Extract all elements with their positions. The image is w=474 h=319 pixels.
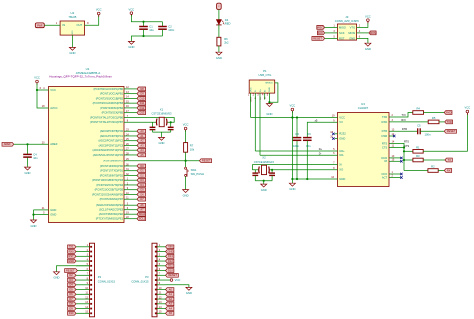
global label D12 bbox=[166, 259, 174, 263]
svg-text:(PCINT14/RESET)PC6: (PCINT14/RESET)PC6 bbox=[103, 161, 123, 163]
capacitor C4 10n bbox=[27, 144, 29, 154]
global label MISO bbox=[317, 26, 325, 30]
junction bbox=[271, 169, 273, 171]
capacitor X2 left bbox=[254, 170, 256, 173]
wire bbox=[185, 176, 187, 189]
svg-text:D4: D4 bbox=[140, 183, 144, 187]
P3 pin 8 bbox=[155, 279, 157, 281]
svg-text:GND: GND bbox=[269, 87, 271, 92]
connector P2 CONN_01X15 bbox=[90, 243, 95, 317]
global label A3 bbox=[166, 302, 174, 306]
junction bbox=[296, 116, 298, 118]
svg-text:A0: A0 bbox=[169, 287, 173, 291]
svg-text:DSR: DSR bbox=[382, 134, 388, 138]
svg-text:SHIELD: SHIELD bbox=[265, 82, 273, 84]
svg-text:A6: A6 bbox=[140, 203, 144, 207]
junction bbox=[26, 143, 28, 145]
svg-text:RTS: RTS bbox=[404, 141, 409, 144]
svg-text:VCC: VCC bbox=[50, 88, 56, 92]
svg-text:100n: 100n bbox=[293, 144, 299, 148]
svg-text:(ADC4/SDA/PCINT12)PC4: (ADC4/SDA/PCINT12)PC4 bbox=[93, 148, 124, 152]
svg-text:(ADC2/PCINT10)PC2: (ADC2/PCINT10)PC2 bbox=[98, 139, 123, 143]
svg-text:(PTCXY/T5/MISO1)PE1: (PTCXY/T5/MISO1)PE1 bbox=[96, 217, 124, 221]
svg-text:RXI: RXI bbox=[401, 119, 405, 122]
global label RESET bbox=[65, 269, 78, 273]
ground bbox=[25, 167, 31, 170]
svg-text:P1: P1 bbox=[263, 69, 267, 73]
svg-text:D4: D4 bbox=[225, 18, 229, 22]
svg-text:D6: D6 bbox=[69, 292, 73, 296]
wire XTAL2 bbox=[124, 121, 157, 123]
svg-text:D12: D12 bbox=[168, 259, 173, 263]
P3 pin 2 bbox=[155, 251, 157, 253]
svg-text:D9: D9 bbox=[69, 306, 73, 310]
svg-text:D3: D3 bbox=[69, 278, 73, 282]
wire VCC rail bbox=[291, 111, 293, 117]
P2 pin 1 bbox=[90, 246, 92, 248]
wire bbox=[255, 180, 272, 182]
wire RESET net bbox=[124, 160, 199, 162]
global label SCK bbox=[317, 31, 324, 35]
power input pad J2 bbox=[35, 23, 44, 28]
P2 pin 4 bbox=[90, 260, 92, 262]
pin 18 R232 stub bbox=[335, 133, 338, 135]
USB pin stubs bbox=[250, 93, 252, 96]
svg-text:10n: 10n bbox=[306, 144, 311, 148]
wire bbox=[185, 152, 187, 161]
P3 pin 13 bbox=[155, 303, 157, 305]
wire bbox=[166, 285, 189, 287]
svg-text:RESET: RESET bbox=[447, 129, 456, 133]
wire bbox=[185, 161, 187, 167]
svg-text:GND: GND bbox=[159, 141, 165, 145]
svg-text:D10: D10 bbox=[168, 268, 173, 272]
svg-text:USB_OTG: USB_OTG bbox=[258, 73, 271, 77]
junction bbox=[296, 178, 298, 180]
junction bbox=[170, 121, 172, 123]
resistor R7 10k bbox=[184, 143, 188, 153]
svg-text:10k: 10k bbox=[190, 147, 195, 151]
global label RXD bbox=[444, 111, 452, 115]
resistor R6 2k2 bbox=[217, 37, 221, 46]
ground bbox=[183, 190, 189, 193]
connector J3 CONN_AVR_ICSP6 bbox=[337, 24, 356, 40]
svg-text:D7: D7 bbox=[140, 197, 144, 201]
wire to VCC bbox=[423, 113, 467, 151]
wire bbox=[357, 38, 368, 43]
svg-text:R5: R5 bbox=[432, 116, 436, 120]
svg-text:XO: XO bbox=[339, 168, 343, 172]
svg-text:GND: GND bbox=[339, 177, 345, 181]
junction bbox=[185, 160, 187, 162]
USB UART U3 CH340T bbox=[338, 113, 390, 187]
svg-text:VCC: VCC bbox=[250, 87, 252, 92]
resistor R3 bbox=[404, 159, 413, 161]
svg-text:(PCINT6/XTAL1/TOSC1)PB6: (PCINT6/XTAL1/TOSC1)PB6 bbox=[90, 115, 124, 119]
global label A0 bbox=[166, 288, 174, 292]
pin 1 CKO stub bbox=[389, 173, 401, 175]
svg-text:DTR: DTR bbox=[382, 129, 388, 133]
junction bbox=[268, 101, 270, 103]
svg-text:GND: GND bbox=[261, 188, 267, 192]
svg-text:(PCINT17/TXD)PD1: (PCINT17/TXD)PD1 bbox=[100, 169, 124, 173]
svg-text:CSTCE16M0V53: CSTCE16M0V53 bbox=[152, 111, 172, 115]
svg-text:A1: A1 bbox=[140, 134, 144, 138]
USB connector P1 USB_OTG bbox=[249, 80, 275, 93]
wire bbox=[424, 112, 445, 114]
wire shield bbox=[269, 83, 278, 102]
svg-text:10n: 10n bbox=[33, 156, 38, 160]
svg-text:XI: XI bbox=[339, 162, 342, 166]
svg-text:D-: D- bbox=[255, 89, 257, 92]
ground bbox=[69, 47, 75, 50]
svg-text:(PCINT5/SCK)PB5: (PCINT5/SCK)PB5 bbox=[102, 111, 124, 115]
wire bbox=[166, 279, 171, 281]
P3 pin 6 bbox=[155, 270, 157, 272]
svg-text:RED: RED bbox=[225, 22, 231, 26]
global label RX1 bbox=[444, 169, 451, 173]
global label A4 bbox=[166, 307, 174, 311]
svg-text:D10: D10 bbox=[69, 311, 74, 315]
svg-text:A4: A4 bbox=[169, 306, 173, 310]
svg-text:PWR: PWR bbox=[37, 25, 43, 27]
P2 pin 5 bbox=[90, 265, 92, 267]
svg-text:CSTCE12M0G15: CSTCE12M0G15 bbox=[254, 160, 275, 164]
wire bbox=[218, 25, 220, 37]
pin 15 RI stub bbox=[389, 160, 401, 162]
P2 pin 9 bbox=[90, 284, 92, 286]
junction bbox=[306, 178, 308, 180]
svg-text:D11: D11 bbox=[140, 101, 145, 105]
wire XO bbox=[270, 169, 338, 171]
svg-text:100n: 100n bbox=[425, 133, 431, 137]
svg-text:GND: GND bbox=[266, 112, 272, 116]
svg-text:Housings_QFP-TQFP-32_7x7mm_Pit: Housings_QFP-TQFP-32_7x7mm_Pitch0.8mm bbox=[49, 74, 112, 78]
svg-text:(ADC1/PCINT9)PC1: (ADC1/PCINT9)PC1 bbox=[100, 134, 124, 138]
svg-text:D6: D6 bbox=[140, 192, 144, 196]
svg-text:(ACO/T3/MOSI1)PE0: (ACO/T3/MOSI1)PE0 bbox=[99, 212, 124, 216]
svg-text:D5: D5 bbox=[69, 287, 73, 291]
wire bbox=[71, 35, 73, 47]
svg-text:C2: C2 bbox=[168, 24, 172, 28]
svg-text:C3: C3 bbox=[295, 132, 299, 136]
P3 pin 15 bbox=[155, 312, 157, 314]
svg-text:RX0: RX0 bbox=[69, 249, 75, 253]
global label D10 bbox=[68, 311, 76, 315]
svg-text:C6: C6 bbox=[307, 132, 311, 136]
global label GND bbox=[68, 259, 76, 263]
svg-text:(PCINT22/OC0A/AIN0)PD6: (PCINT22/OC0A/AIN0)PD6 bbox=[92, 192, 124, 196]
P2 pin 6 bbox=[90, 270, 92, 272]
svg-text:GND: GND bbox=[68, 259, 74, 263]
global label D6 bbox=[68, 292, 76, 296]
svg-text:A2: A2 bbox=[140, 139, 144, 143]
P2 pin 14 bbox=[90, 308, 92, 310]
svg-text:(PCINT21/OC0B/T1)PD5: (PCINT21/OC0B/T1)PD5 bbox=[95, 188, 124, 192]
global label RESET bbox=[199, 159, 211, 163]
svg-text:AREF: AREF bbox=[4, 142, 11, 146]
wire GND pins 21 5 bbox=[34, 209, 49, 211]
capacitor C3 100n bbox=[296, 118, 298, 138]
svg-text:UD-: UD- bbox=[339, 153, 344, 157]
capacitor X1 left bbox=[152, 122, 154, 127]
P3 pin 10 bbox=[155, 289, 157, 291]
svg-text:DCD: DCD bbox=[381, 156, 387, 160]
svg-text:C4: C4 bbox=[33, 152, 37, 156]
wire RXD bbox=[389, 121, 428, 123]
global label D4 bbox=[68, 283, 76, 287]
svg-text:(PCINT4/MISO)PB4: (PCINT4/MISO)PB4 bbox=[100, 106, 123, 110]
power VCC bbox=[184, 127, 187, 132]
svg-text:GND: GND bbox=[349, 36, 355, 40]
wire XI bbox=[253, 165, 338, 170]
ground bbox=[159, 137, 165, 140]
svg-text:R7: R7 bbox=[190, 144, 194, 148]
svg-text:GND: GND bbox=[289, 187, 295, 191]
global label A2 bbox=[166, 297, 174, 301]
svg-text:D5: D5 bbox=[140, 188, 144, 192]
wire UD+ bbox=[255, 150, 337, 152]
svg-text:78L05: 78L05 bbox=[68, 15, 76, 19]
svg-text:X2: X2 bbox=[262, 155, 266, 159]
LED D4 RED bbox=[216, 20, 224, 25]
global label RX0 bbox=[68, 250, 76, 254]
global label D11 bbox=[166, 264, 174, 268]
svg-text:D2: D2 bbox=[140, 173, 144, 177]
svg-text:OUT: OUT bbox=[77, 23, 83, 27]
svg-text:VCC: VCC bbox=[175, 278, 181, 282]
wire GND rail bbox=[291, 118, 293, 184]
svg-text:RESET: RESET bbox=[66, 268, 75, 272]
ground bbox=[261, 184, 267, 187]
svg-text:R3: R3 bbox=[416, 154, 420, 158]
global label D8 bbox=[68, 302, 76, 306]
wire bbox=[420, 130, 444, 132]
svg-text:(PCINT20/XCK/T0)PD4: (PCINT20/XCK/T0)PD4 bbox=[96, 183, 123, 187]
svg-text:A3: A3 bbox=[140, 143, 144, 147]
global label RESET bbox=[166, 273, 179, 277]
svg-text:RXD: RXD bbox=[446, 110, 452, 114]
svg-text:(PCINT23/AIN1)PD7: (PCINT23/AIN1)PD7 bbox=[100, 197, 124, 201]
svg-text:VCC: VCC bbox=[465, 106, 471, 110]
svg-text:CONN_AVR_ICSP6: CONN_AVR_ICSP6 bbox=[335, 19, 360, 23]
svg-text:SW1: SW1 bbox=[191, 168, 197, 172]
capacitor C1 10u bbox=[143, 22, 145, 27]
global label D7 bbox=[68, 297, 76, 301]
svg-text:(PCINT19/OC2B/INT1)PD3: (PCINT19/OC2B/INT1)PD3 bbox=[92, 178, 124, 182]
P2 pin 7 bbox=[90, 274, 92, 276]
P2 pin 11 bbox=[90, 293, 92, 295]
power VCC bbox=[130, 12, 133, 16]
ground bbox=[186, 287, 192, 290]
svg-text:10u: 10u bbox=[149, 28, 154, 32]
wire XTAL1 bbox=[124, 118, 174, 123]
svg-text:P2: P2 bbox=[98, 275, 102, 279]
ground bbox=[266, 104, 272, 107]
wire bbox=[85, 15, 99, 25]
svg-text:D11: D11 bbox=[168, 264, 173, 268]
svg-text:VTG: VTG bbox=[350, 25, 356, 29]
svg-text:(ADC5/SCL/PCINT13)PC5: (ADC5/SCL/PCINT13)PC5 bbox=[93, 153, 124, 157]
svg-text:J3: J3 bbox=[345, 15, 348, 19]
resistor R1 bbox=[404, 150, 413, 152]
svg-text:D7: D7 bbox=[69, 297, 73, 301]
P2 pin 15 bbox=[90, 312, 92, 314]
svg-text:TXD: TXD bbox=[382, 115, 387, 119]
wire bbox=[153, 131, 171, 133]
wire bbox=[131, 36, 162, 41]
P3 pin 5 bbox=[155, 265, 157, 267]
wire bbox=[131, 15, 162, 22]
svg-text:(PCINT16/RXD)PD0: (PCINT16/RXD)PD0 bbox=[100, 164, 124, 168]
junction bbox=[142, 21, 144, 23]
ground bbox=[216, 52, 222, 55]
global label A1 bbox=[166, 292, 174, 296]
svg-text:MISO: MISO bbox=[339, 25, 346, 29]
svg-text:(PCINT2/SS/OC1B)PB2: (PCINT2/SS/OC1B)PB2 bbox=[96, 96, 124, 100]
svg-text:AVCC: AVCC bbox=[50, 106, 57, 110]
pin 10 DCD stub bbox=[389, 157, 401, 159]
wire VCC to pins 4 6 bbox=[37, 83, 49, 108]
ground bbox=[54, 272, 60, 275]
svg-text:P: P bbox=[218, 6, 219, 8]
svg-text:(SCL1/T4/ADC7)PE3: (SCL1/T4/ADC7)PE3 bbox=[99, 208, 124, 212]
svg-text:UD+: UD+ bbox=[339, 149, 345, 153]
svg-text:RESET: RESET bbox=[202, 159, 211, 163]
P2 pin 8 bbox=[90, 279, 92, 281]
capacitor C2 100n bbox=[162, 22, 164, 27]
svg-text:TX1: TX1 bbox=[69, 245, 74, 249]
svg-text:(PCINT0/CLKO/ICP1)PB0: (PCINT0/CLKO/ICP1)PB0 bbox=[94, 87, 124, 91]
svg-text:VCC: VCC bbox=[290, 104, 296, 108]
svg-text:DTR: DTR bbox=[402, 128, 407, 131]
svg-text:(PCINT3/OC2A/MOSI)PB3: (PCINT3/OC2A/MOSI)PB3 bbox=[93, 101, 124, 105]
P2 pin 3 bbox=[90, 255, 92, 257]
wire UD- bbox=[260, 154, 338, 156]
svg-text:CONN_01X15: CONN_01X15 bbox=[98, 280, 116, 284]
global label TX0 bbox=[445, 158, 452, 162]
global label A5 bbox=[166, 311, 174, 315]
wire CTS bbox=[389, 147, 404, 149]
svg-text:VCC: VCC bbox=[129, 7, 135, 11]
svg-text:GND: GND bbox=[72, 30, 74, 35]
svg-text:TX: TX bbox=[448, 158, 452, 162]
svg-text:(ADC3/PCINT11)PC3: (ADC3/PCINT11)PC3 bbox=[99, 143, 124, 147]
wire bbox=[218, 46, 220, 52]
svg-text:(PCINT18/INT0)PD2: (PCINT18/INT0)PD2 bbox=[100, 173, 124, 177]
capacitor X2 right bbox=[271, 170, 273, 173]
global label MOSI bbox=[357, 32, 369, 34]
power VCC bbox=[466, 110, 469, 115]
P3 pin 7 bbox=[155, 274, 157, 276]
P3 pin 12 bbox=[155, 298, 157, 300]
power VCC bbox=[36, 80, 39, 85]
wire bbox=[439, 121, 445, 123]
svg-text:R4: R4 bbox=[416, 106, 420, 110]
global label TX1 bbox=[68, 245, 76, 249]
svg-text:D4: D4 bbox=[69, 283, 73, 287]
svg-text:D13: D13 bbox=[140, 111, 145, 115]
P2 pin 2 bbox=[90, 251, 92, 253]
svg-text:100n: 100n bbox=[168, 28, 174, 32]
push button SW1 SW_PUSH bbox=[185, 167, 189, 176]
svg-text:D8: D8 bbox=[140, 87, 144, 91]
junction bbox=[142, 35, 144, 37]
svg-text:RX: RX bbox=[447, 168, 451, 172]
svg-text:IN: IN bbox=[63, 23, 66, 27]
svg-text:ACT: ACT bbox=[382, 175, 388, 179]
resistor R5 bbox=[428, 120, 439, 124]
svg-text:SCK: SCK bbox=[318, 31, 324, 35]
svg-text:TXD: TXD bbox=[447, 120, 452, 124]
svg-text:RESET: RESET bbox=[313, 36, 322, 40]
P3 pin 11 bbox=[155, 293, 157, 295]
svg-text:A3: A3 bbox=[169, 302, 173, 306]
global label GND bbox=[166, 250, 174, 254]
P3 pin 14 bbox=[155, 308, 157, 310]
svg-text:RXD: RXD bbox=[382, 120, 388, 124]
wire bbox=[325, 26, 338, 28]
wire D+ down bbox=[259, 96, 261, 155]
ground bbox=[289, 183, 295, 186]
global label D5 bbox=[68, 288, 76, 292]
svg-text:CONN_01X15: CONN_01X15 bbox=[131, 280, 149, 284]
svg-text:R2: R2 bbox=[431, 165, 435, 169]
svg-text:VCC: VCC bbox=[365, 14, 371, 18]
svg-text:CH340T: CH340T bbox=[358, 106, 369, 110]
svg-text:V3: V3 bbox=[339, 120, 343, 124]
junction bbox=[403, 150, 405, 152]
svg-text:SW_PUSH: SW_PUSH bbox=[191, 172, 204, 176]
wire bbox=[438, 170, 444, 172]
P3 pin 9 bbox=[155, 284, 157, 286]
capacitor C5 100n bbox=[418, 128, 421, 134]
svg-text:2k2: 2k2 bbox=[224, 41, 229, 45]
svg-text:D0: D0 bbox=[140, 164, 144, 168]
svg-text:CKO: CKO bbox=[381, 172, 387, 176]
svg-text:GND: GND bbox=[339, 136, 345, 140]
svg-text:(ADC0/PCINT8)PC0: (ADC0/PCINT8)PC0 bbox=[100, 129, 124, 133]
svg-text:P3: P3 bbox=[145, 275, 149, 279]
wire TXD bbox=[389, 113, 413, 118]
ground bbox=[365, 43, 371, 46]
global label TXD bbox=[445, 120, 453, 124]
global label D13 bbox=[166, 254, 174, 258]
svg-text:VCC: VCC bbox=[183, 123, 189, 127]
wire bbox=[423, 159, 445, 161]
resistor R2 bbox=[404, 170, 428, 172]
wire bbox=[218, 10, 220, 20]
svg-text:MOSI: MOSI bbox=[370, 31, 377, 35]
svg-text:D2: D2 bbox=[69, 273, 73, 277]
wire ID stub bbox=[264, 96, 266, 100]
svg-text:D3: D3 bbox=[140, 178, 144, 182]
wire bbox=[44, 24, 60, 26]
svg-text:GND: GND bbox=[69, 51, 75, 55]
svg-text:RST: RST bbox=[339, 36, 345, 40]
svg-text:GND: GND bbox=[50, 208, 56, 212]
svg-text:X1: X1 bbox=[160, 108, 164, 112]
wire V3 line bbox=[307, 122, 337, 137]
MCU U1 ATMEGA328PB-A bbox=[49, 87, 125, 223]
ground bbox=[31, 220, 37, 223]
junction bbox=[403, 146, 405, 148]
svg-text:GND: GND bbox=[128, 45, 134, 49]
wire DTR bbox=[389, 130, 418, 132]
svg-text:(PCINT1/OC1A)PB1: (PCINT1/OC1A)PB1 bbox=[100, 92, 124, 96]
power VCC bbox=[291, 108, 294, 113]
svg-text:D9: D9 bbox=[140, 92, 144, 96]
